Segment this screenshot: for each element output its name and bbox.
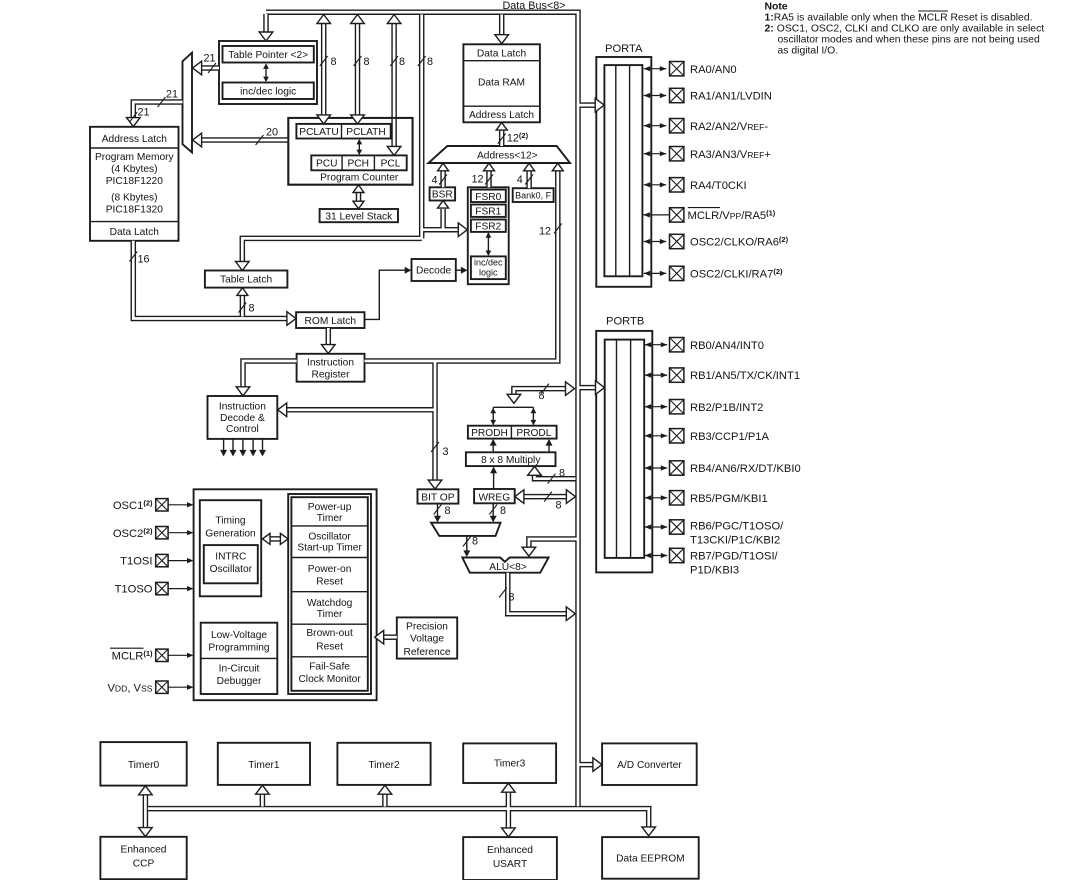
slash 12 long <box>554 224 562 234</box>
pin RB4/AN6/RX/DT/KBI0 <box>645 461 801 475</box>
arrowhead FSR into Address<12> <box>484 163 495 171</box>
register BSR <box>430 187 456 200</box>
svg-text:RA0/AN0: RA0/AN0 <box>690 64 737 76</box>
svg-text:8: 8 <box>427 56 433 68</box>
block Instruction Register <box>297 354 365 382</box>
svg-text:PCLATU: PCLATU <box>299 127 338 138</box>
arrowheads bus line 1 <box>317 15 331 24</box>
svg-text:OSC2/CLKO/RA6(2): OSC2/CLKO/RA6(2) <box>690 235 789 249</box>
solid head ROM Latch to Decode <box>405 267 412 274</box>
block Data RAM <box>463 44 540 122</box>
slash 12(2) <box>498 134 506 144</box>
svg-text:Table Latch: Table Latch <box>220 275 272 286</box>
solid heads PCLATH-PCH <box>356 139 362 144</box>
svg-text:Power-on: Power-on <box>308 564 352 575</box>
svg-text:Timer: Timer <box>317 609 343 620</box>
slashes 8 on bus lines <box>320 56 328 66</box>
block reset/timer stack <box>288 494 371 694</box>
arrowhead ROM Latch to Instruction Register <box>322 345 336 354</box>
arrowhead bus to Table Latch top <box>236 262 250 271</box>
pin OSC2/CLKI/RA7 <box>644 266 783 280</box>
svg-text:Decode &: Decode & <box>220 413 265 424</box>
registers PRODH PRODL <box>468 426 557 439</box>
svg-text:Program Memory: Program Memory <box>95 152 175 163</box>
NOTE <box>765 1 1045 56</box>
arrowheads bus line 3 <box>387 15 401 24</box>
svg-text:PCL: PCL <box>381 159 401 170</box>
pin RA3/AN3/VREF+ <box>644 147 771 161</box>
svg-text:Data Latch: Data Latch <box>477 48 526 59</box>
svg-text:PRODL: PRODL <box>516 428 551 439</box>
svg-text:PRODH: PRODH <box>471 428 508 439</box>
arrowhead bus into PORTA <box>595 98 604 112</box>
wire mux to ALU <box>466 536 468 552</box>
svg-text:RB2/P1B/INT2: RB2/P1B/INT2 <box>690 402 763 414</box>
slash 8 below WREG <box>489 505 497 515</box>
svg-text:8: 8 <box>399 56 405 68</box>
HEADS <box>127 15 656 837</box>
svg-text:as digital I/O.: as digital I/O. <box>778 46 839 57</box>
wire PRODH/PRODL top bracket <box>493 406 533 408</box>
svg-text:Enhanced: Enhanced <box>487 845 533 856</box>
svg-text:Timer0: Timer0 <box>128 760 160 771</box>
svg-text:OSC2/CLKI/RA7(2): OSC2/CLKI/RA7(2) <box>690 267 783 281</box>
arrowhead IR line into Address<12> <box>552 163 563 171</box>
svg-text:21: 21 <box>203 53 215 65</box>
pin OSC1 <box>113 498 194 512</box>
arrowheads WREG - data bus <box>515 490 524 504</box>
block Timer1 <box>218 743 310 785</box>
svg-text:P1D/KBI3: P1D/KBI3 <box>690 565 739 577</box>
pin RA0/AN0 <box>644 61 737 75</box>
svg-text:31 Level Stack: 31 Level Stack <box>325 211 393 222</box>
svg-text:T1OSI: T1OSI <box>120 556 152 568</box>
svg-text:Bank0, F: Bank0, F <box>515 191 552 201</box>
arrowhead bus into Timer2 <box>378 785 392 794</box>
svg-text:In-Circuit: In-Circuit <box>219 664 260 675</box>
svg-text:FSR1: FSR1 <box>475 207 501 218</box>
svg-text:RB4/AN6/RX/DT/KBI0: RB4/AN6/RX/DT/KBI0 <box>690 463 801 475</box>
slash+width 21 (mux out horiz) <box>158 97 166 107</box>
svg-text:T13CKI/P1C/KBI2: T13CKI/P1C/KBI2 <box>690 535 780 547</box>
svg-text:Oscillator: Oscillator <box>210 564 253 575</box>
svg-text:Programming: Programming <box>208 643 269 654</box>
arrowhead Address<12> into RAM Address Latch <box>496 123 507 131</box>
svg-text:4: 4 <box>431 174 437 186</box>
svg-text:Address Latch: Address Latch <box>102 134 167 145</box>
block A/D Converter <box>602 743 697 785</box>
svg-text:4: 4 <box>517 174 523 186</box>
svg-text:8 x 8 Multiply: 8 x 8 Multiply <box>481 455 541 466</box>
svg-text:8: 8 <box>538 390 544 402</box>
svg-text:ROM Latch: ROM Latch <box>305 316 357 327</box>
svg-text:Timer2: Timer2 <box>368 760 400 771</box>
svg-text:Note: Note <box>765 1 788 12</box>
svg-text:PORTB: PORTB <box>606 315 644 327</box>
svg-text:Generation: Generation <box>205 529 255 540</box>
svg-text:Control: Control <box>226 424 259 435</box>
wire stubs under Instruction Decode <box>224 439 263 452</box>
arrowhead 16-line into ROM Latch <box>287 312 296 326</box>
svg-text:Timer: Timer <box>317 513 343 524</box>
svg-text:12: 12 <box>471 174 483 186</box>
svg-text:FSR2: FSR2 <box>475 222 501 233</box>
svg-text:Precision: Precision <box>406 622 448 633</box>
slash+width 21 (table pointer) <box>208 63 216 73</box>
wire ROM Latch to Decode <box>365 270 407 319</box>
svg-text:Low-Voltage: Low-Voltage <box>211 630 267 641</box>
svg-text:Data Bus<8>: Data Bus<8> <box>502 0 565 12</box>
svg-text:Voltage: Voltage <box>410 634 444 645</box>
block Table Latch <box>205 271 288 288</box>
svg-text:12: 12 <box>539 225 551 237</box>
solid heads 8x8 to PRODH/PRODL <box>490 439 497 446</box>
block Program Counter <box>288 118 412 185</box>
arrowhead Table Pointer to mux <box>193 61 202 75</box>
svg-text:USART: USART <box>493 859 527 870</box>
arrowhead Precision Voltage Reference into stack <box>375 630 384 644</box>
svg-text:Reference: Reference <box>403 647 450 658</box>
mux ALU input (upper trapezoid) <box>431 523 500 536</box>
register WREG <box>474 489 515 503</box>
arrowhead bus into 8x8 Multiply <box>528 466 542 475</box>
block Table Pointer unit <box>219 41 317 104</box>
svg-text:Power-up: Power-up <box>308 502 352 513</box>
svg-text:inc/dec: inc/dec <box>474 258 503 268</box>
arrowhead 3-line into BIT OP <box>428 480 442 489</box>
slash 8 below BIT OP <box>434 505 442 515</box>
pin RB1/AN5/TX/CK/INT1 <box>645 368 800 382</box>
slash 4 Bank0 <box>525 175 533 185</box>
svg-text:RA1/AN1/LVDIN: RA1/AN1/LVDIN <box>690 91 772 103</box>
arrowhead bus into Data RAM <box>495 35 509 44</box>
block Data EEPROM <box>602 837 699 879</box>
pin MCLR/VPP/RA5 <box>643 208 776 222</box>
block Timer3 <box>463 743 556 783</box>
block Instruction Decode & Control <box>208 396 278 439</box>
svg-text:RA3/AN3/VREF+: RA3/AN3/VREF+ <box>690 149 771 161</box>
arrowheads Timing Generation - reset stack <box>262 533 270 544</box>
svg-text:8: 8 <box>330 56 336 68</box>
svg-text:Data RAM: Data RAM <box>478 78 525 89</box>
svg-text:21: 21 <box>166 89 178 101</box>
svg-text:8: 8 <box>500 505 506 517</box>
svg-text:WREG: WREG <box>478 492 510 503</box>
svg-text:Enhanced: Enhanced <box>121 845 167 856</box>
svg-text:MCLR/VPP/RA5(1): MCLR/VPP/RA5(1) <box>688 209 776 223</box>
svg-text:Debugger: Debugger <box>217 676 262 687</box>
wire BIT OP to mux <box>437 504 439 517</box>
slash 8 table latch <box>239 303 247 313</box>
slash+width 21 (into address latch) <box>129 112 137 122</box>
wire WREG to 8x8 Multiply <box>493 468 495 490</box>
svg-text:RB5/PGM/KBI1: RB5/PGM/KBI1 <box>690 493 768 505</box>
svg-text:8: 8 <box>248 303 254 315</box>
arrowhead into Instruction Decode right <box>278 403 287 417</box>
arrowhead PRODH path down into bracket <box>507 394 521 403</box>
arrowhead ALU out into bus <box>566 607 575 621</box>
node Bank0,F <box>513 188 554 202</box>
svg-text:8: 8 <box>559 468 565 480</box>
block 31 Level Stack <box>320 209 398 222</box>
mux table-pointer/PC (left multiplexer) <box>183 53 193 153</box>
svg-text:INTRC: INTRC <box>215 551 246 562</box>
block Program Memory <box>90 127 179 241</box>
slash 8 WREG-bus <box>544 492 552 502</box>
svg-text:Start-up Timer: Start-up Timer <box>297 542 362 553</box>
solid head mux to ALU <box>463 550 470 557</box>
arrowhead bus into Data EEPROM <box>642 827 656 836</box>
solid heads bracket to PRODH/PRODL <box>490 420 496 425</box>
svg-text:BIT OP: BIT OP <box>421 493 454 504</box>
slash+width 20 <box>256 135 264 145</box>
svg-text:inc/dec logic: inc/dec logic <box>240 87 296 98</box>
svg-text:oscillator modes and when thes: oscillator modes and when these pins are… <box>778 35 1040 46</box>
pin RB3/CCP1/P1A <box>645 429 770 443</box>
svg-text:Register: Register <box>312 370 351 381</box>
solid head BIT OP to mux <box>434 516 441 523</box>
svg-text:8: 8 <box>363 56 369 68</box>
pin RB2/P1B/INT2 <box>645 400 764 414</box>
svg-text:8: 8 <box>444 505 450 517</box>
svg-text:Instruction: Instruction <box>219 401 266 412</box>
block BIT OP <box>418 489 459 503</box>
block Enhanced CCP <box>100 837 186 879</box>
pin RA1/AN1/LVDIN <box>644 88 772 102</box>
pin T1OSI <box>120 554 193 567</box>
svg-text:Data EEPROM: Data EEPROM <box>616 854 685 865</box>
solid heads TablePointer-incdec <box>263 64 269 69</box>
svg-text:3: 3 <box>442 446 448 458</box>
svg-text:A/D Converter: A/D Converter <box>617 760 682 771</box>
arrowhead bus to FSR <box>458 223 467 237</box>
block Timer2 <box>337 743 430 785</box>
pin RB5/PGM/KBI1 <box>645 491 768 505</box>
pin VDD VSS <box>107 681 193 694</box>
svg-text:(4 Kbytes): (4 Kbytes) <box>111 164 157 175</box>
arrowhead bus into PORTB <box>596 381 605 395</box>
arrowhead branch to BSR bottom <box>438 201 449 209</box>
svg-text:VDD, VSS: VDD, VSS <box>107 682 152 694</box>
block Timer0 <box>100 742 186 786</box>
svg-text:logic: logic <box>479 268 498 278</box>
svg-text:2:OSC1, OSC2, CLKI and CLKO ar: 2:OSC1, OSC2, CLKI and CLKO are only ava… <box>765 24 1045 35</box>
wire WREG to mux <box>492 503 494 517</box>
wire Decode to FSR <box>456 269 463 271</box>
svg-text:8: 8 <box>508 592 514 604</box>
svg-text:Address<12>: Address<12> <box>477 151 538 162</box>
solid heads Instruction Decode control outputs <box>220 450 227 457</box>
solid head Decode to FSR <box>461 267 468 274</box>
svg-text:Reset: Reset <box>316 576 343 587</box>
svg-text:Table Pointer <2>: Table Pointer <2> <box>228 50 308 61</box>
svg-text:Watchdog: Watchdog <box>307 598 353 609</box>
arrowhead into Table Pointer <box>259 32 273 41</box>
svg-text:RA4/T0CKI: RA4/T0CKI <box>690 180 747 192</box>
svg-text:1:RA5 is available only when t: 1:RA5 is available only when the MCLR Re… <box>765 12 1033 23</box>
svg-text:PCLATH: PCLATH <box>346 127 385 138</box>
svg-text:Instruction: Instruction <box>307 358 354 369</box>
solid head WREG to mux <box>490 516 497 523</box>
solid heads FSR2-incdec <box>486 232 492 237</box>
arrowheads Timer0 - Enhanced CCP <box>139 786 153 795</box>
wire FSR2-incdec arrow <box>487 233 489 255</box>
svg-text:CCP: CCP <box>133 859 155 870</box>
block Enhanced USART <box>463 837 557 880</box>
arrowheads Timer3 - Enhanced USART <box>502 783 516 792</box>
bus Data Bus top+right vertical <box>133 12 648 828</box>
node Address<12> <box>428 146 570 163</box>
arrowhead BSR into Address<12> <box>438 163 449 171</box>
wire TablePointer-incdec arrow <box>265 65 267 82</box>
svg-text:Fail-Safe: Fail-Safe <box>309 662 350 673</box>
svg-text:RB7/PGD/T1OSI/: RB7/PGD/T1OSI/ <box>690 551 779 563</box>
arrowhead IR to Instruction Decode (top) <box>236 387 250 396</box>
block PORTA <box>596 43 651 287</box>
slash 16 <box>129 252 137 262</box>
svg-text:RB3/CCP1/P1A: RB3/CCP1/P1A <box>690 431 770 443</box>
arrowhead into Table Latch bottom <box>237 288 248 296</box>
op-amp ALU<8> <box>462 558 548 574</box>
svg-text:Brown-out: Brown-out <box>306 628 353 639</box>
pin RA4/T0CKI <box>644 178 747 192</box>
pin T1OSO <box>115 582 194 595</box>
slash 3 <box>431 442 439 452</box>
wire PCLATH-PCH arrow <box>358 140 360 154</box>
svg-text:RA2/AN2/VREF-: RA2/AN2/VREF- <box>690 121 768 133</box>
svg-text:PORTA: PORTA <box>605 43 643 55</box>
svg-text:Timer3: Timer3 <box>494 759 526 770</box>
wire restroke PC box border over bus crossing <box>288 118 412 185</box>
pin RB6/PGC/T1OSO/T13CKI/P1C/KBI2 <box>645 520 785 547</box>
pin MCLR <box>110 648 194 662</box>
svg-text:RB0/AN4/INT0: RB0/AN4/INT0 <box>690 340 764 352</box>
block 8x8 Multiply <box>466 452 556 466</box>
pin RA2/AN2/VREF- <box>644 119 769 133</box>
svg-text:Clock Monitor: Clock Monitor <box>298 674 361 685</box>
svg-text:Timer1: Timer1 <box>248 760 280 771</box>
pin OSC2/CLKO/RA6 <box>644 234 789 248</box>
block Timing Generation <box>200 500 261 596</box>
arrowhead bus into A/D Converter <box>593 758 602 772</box>
block Low-Voltage Programming / In-Circuit Debugger <box>201 623 278 694</box>
block FSR registers <box>468 187 509 284</box>
pin RB7/PGD/T1OSI/P1D/KBI3 <box>645 548 779 576</box>
svg-text:T1OSO: T1OSO <box>115 584 153 596</box>
slash 4 BSR <box>439 175 447 185</box>
svg-text:Timing: Timing <box>215 516 246 527</box>
block Precision Voltage Reference <box>397 617 457 658</box>
wire 8x8 Multiply to PRODL <box>548 440 550 452</box>
arrowhead mux out to Address Latch <box>127 118 141 127</box>
svg-text:PCH: PCH <box>347 159 369 170</box>
svg-text:Program Counter: Program Counter <box>320 173 399 184</box>
svg-text:RB6/PGC/T1OSO/: RB6/PGC/T1OSO/ <box>690 521 784 533</box>
pin RB0/AN4/INT0 <box>645 338 764 352</box>
slash 8 PRODH path <box>541 384 549 394</box>
svg-text:Reset: Reset <box>316 641 343 652</box>
block oscillator/reset outer box <box>194 489 377 700</box>
svg-text:20: 20 <box>266 127 278 139</box>
svg-text:PIC18F1220: PIC18F1220 <box>106 176 164 187</box>
arrowhead bus into Timer1 <box>256 785 270 794</box>
svg-text:Decode: Decode <box>416 266 451 277</box>
svg-text:Oscillator: Oscillator <box>308 531 351 542</box>
svg-text:Address Latch: Address Latch <box>469 110 534 121</box>
svg-text:FSR0: FSR0 <box>475 192 501 203</box>
svg-text:PCU: PCU <box>316 159 338 170</box>
arrowhead PRODH path into bus <box>566 382 575 396</box>
arrowheads bus line 2 <box>351 15 365 24</box>
block PORTB <box>596 315 652 572</box>
svg-text:ALU<8>: ALU<8> <box>489 562 526 573</box>
svg-text:Data Latch: Data Latch <box>110 227 159 238</box>
slash 8 8x8 feed <box>548 474 556 484</box>
svg-text:PIC18F1320: PIC18F1320 <box>106 205 164 216</box>
svg-text:(8 Kbytes): (8 Kbytes) <box>111 193 157 204</box>
arrowhead bus into ALU top <box>522 547 536 556</box>
pin OSC2 <box>113 526 194 540</box>
arrowheads PC - 31 Level Stack <box>353 185 364 193</box>
block ROM Latch <box>296 312 364 328</box>
slash 8 ALU out <box>499 588 507 598</box>
arrowhead PC to mux (20) <box>193 133 202 147</box>
wire 8x8 Multiply to PRODH <box>492 440 494 452</box>
svg-text:21: 21 <box>137 107 149 119</box>
svg-text:16: 16 <box>137 254 149 266</box>
block Decode <box>412 259 456 281</box>
svg-text:RB1/AN5/TX/CK/INT1: RB1/AN5/TX/CK/INT1 <box>690 370 800 382</box>
svg-text:BSR: BSR <box>432 190 453 201</box>
svg-text:8: 8 <box>555 500 561 512</box>
slash 12 FSR <box>485 175 493 185</box>
solid head WREG to 8x8 <box>490 467 497 474</box>
svg-text:8: 8 <box>472 536 478 548</box>
slash 8 below mux <box>463 537 471 547</box>
arrowhead Bank0 into Address<12> <box>524 163 535 171</box>
